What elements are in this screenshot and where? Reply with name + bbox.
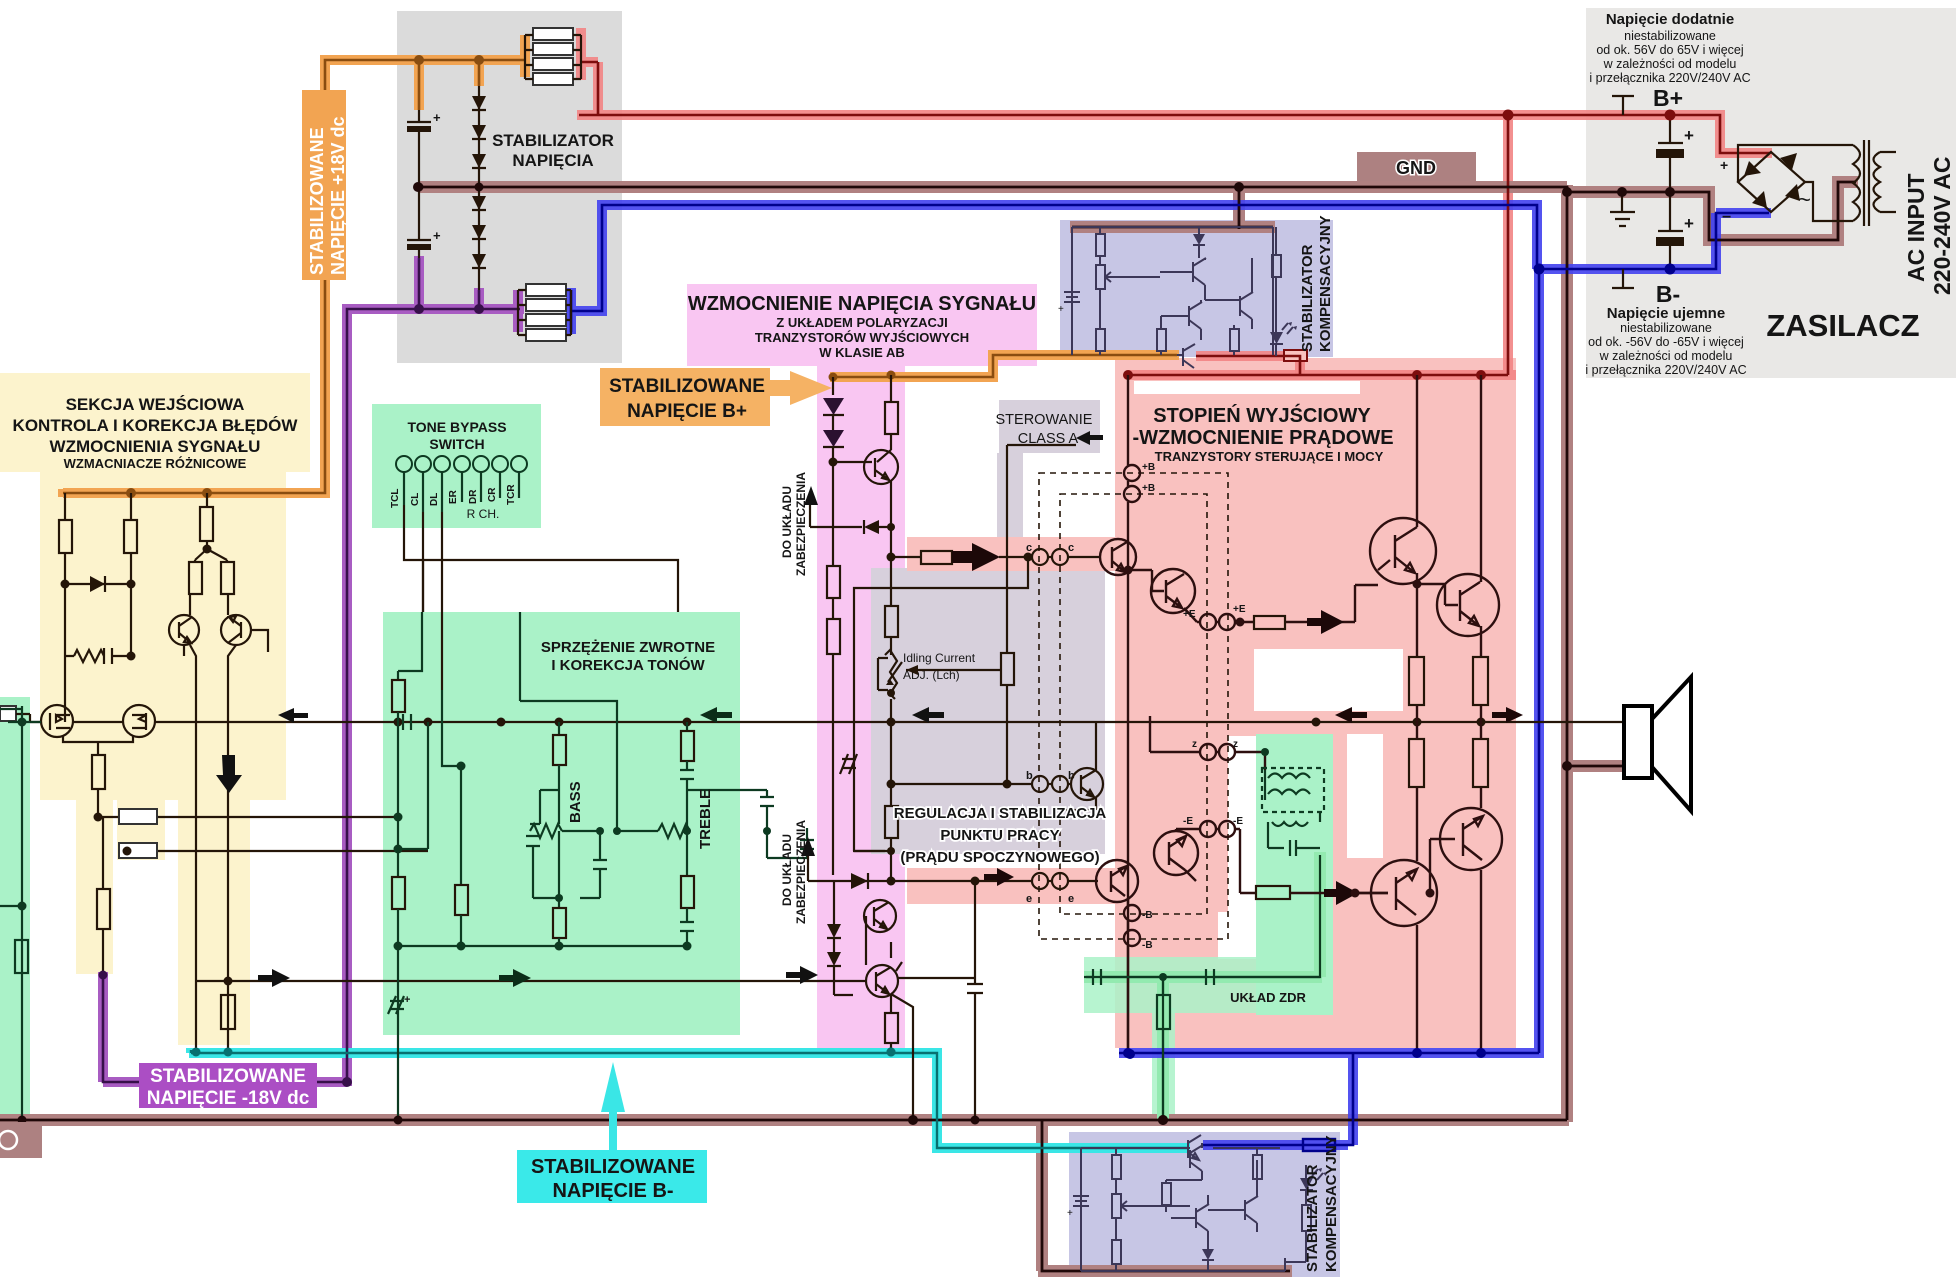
LED D51: [1270, 332, 1283, 344]
resistor R31: [827, 566, 840, 598]
region: regulacja lavender box: [871, 568, 1105, 854]
svg-text:AC INPUT: AC INPUT: [1903, 173, 1929, 282]
resistor R45: [1256, 886, 1290, 899]
svg-text:REGULACJA I STABILIZACJA: REGULACJA I STABILIZACJA: [894, 805, 1107, 822]
Z row: [1150, 716, 1265, 770]
protection tap lower: [801, 837, 868, 889]
transistor Q51: [1161, 300, 1202, 340]
+E connector circles: [1200, 614, 1235, 630]
region: red strip e-row: [907, 868, 1115, 904]
wire Q22 collector to cap: [866, 916, 902, 971]
label cyan B-: [517, 1150, 707, 1203]
diode D10: [61, 553, 136, 592]
label stabilizator kompensacyjny bottom: [1304, 1135, 1340, 1272]
resistor R23 bass top: [558, 722, 560, 735]
treble resistor R25: [686, 722, 688, 731]
svg-text:+E: +E: [1233, 604, 1246, 615]
trimmer line 2: [119, 843, 428, 858]
region: yellow input section schematic: [40, 470, 286, 800]
svg-text:NAPIĘCIE B-: NAPIĘCIE B-: [552, 1180, 673, 1202]
svg-text:-B: -B: [1142, 910, 1153, 921]
svg-text:UKŁAD ZDR: UKŁAD ZDR: [1230, 990, 1306, 1005]
svg-text:+: +: [433, 110, 441, 125]
resistor R14: [92, 755, 105, 789]
junction dot purple: [342, 1077, 352, 1087]
wire core cyan: [191, 1050, 1188, 1148]
chassis symbol top: [1612, 96, 1634, 115]
labels zasilacz bottom block: [1585, 305, 1746, 377]
resistor R56 on red link: [1284, 350, 1307, 361]
junction dots stabilizer: [414, 55, 484, 65]
zdr cap left bottom band: [1086, 969, 1110, 985]
resistor R30: [890, 375, 892, 402]
resistor R65: [1302, 1205, 1311, 1231]
transistor Q10: [169, 594, 199, 645]
zdr transformer: [1262, 768, 1324, 826]
emitter resistor R43: [1409, 739, 1424, 787]
svg-text:ER: ER: [448, 489, 459, 504]
arrow left at 1335: [1335, 707, 1367, 723]
wire core red: [579, 62, 1770, 375]
capacitor C2 bottom: [407, 184, 441, 258]
resistor R60: [1112, 1155, 1121, 1179]
junction dot cyan end: [887, 1048, 896, 1057]
cyan arrow label pointer: [601, 1062, 625, 1150]
svg-text:NAPIĘCIE -18V dc: NAPIĘCIE -18V dc: [147, 1088, 310, 1109]
protection tap upper: arrow up: [804, 486, 895, 534]
arrow right +E row: [1307, 610, 1344, 634]
+B connector circles: [1124, 465, 1140, 502]
connector circles e row: [1032, 873, 1068, 889]
svg-text:STABILIZOWANE: STABILIZOWANE: [307, 127, 327, 275]
region: uklad zdr green column: [1256, 734, 1333, 1015]
Z connector circles: [1200, 744, 1235, 760]
arrow right at 215: [258, 969, 290, 987]
FET T2: [123, 705, 155, 737]
diode D23: [851, 873, 868, 889]
transistor Q37 lower left: [1096, 860, 1138, 905]
diode D21: [823, 430, 844, 447]
transistor Q11: [221, 594, 251, 645]
label sprzezenie: [541, 639, 715, 674]
wire cyan band B- stabilized: [189, 1048, 1190, 1148]
svg-text:-B: -B: [1142, 940, 1153, 951]
switch wires down: [404, 505, 678, 690]
wire core green zdr: [1084, 855, 1320, 1120]
svg-text:KOMPENSACYJNY: KOMPENSACYJNY: [1317, 215, 1334, 352]
zener symbol bottom left: [388, 996, 404, 1014]
arrow right to speaker: [1492, 707, 1523, 723]
junction dots red bus: [1123, 370, 1486, 380]
wire red band B+: [577, 28, 1772, 375]
svg-text:i przełącznika 220V/240V AC: i przełącznika 220V/240V AC: [1585, 363, 1746, 377]
resistor R55: [1230, 329, 1239, 351]
rc feedback network: [65, 584, 136, 664]
svg-text:+B: +B: [1142, 483, 1155, 494]
label do ukladu 2: [780, 820, 808, 924]
svg-text:-WZMOCNIENIE PRĄDOWE: -WZMOCNIENIE PRĄDOWE: [1132, 427, 1393, 449]
capacitor C1 top: [407, 110, 441, 184]
svg-text:SWITCH: SWITCH: [429, 436, 484, 452]
region: pink column: [817, 366, 905, 1052]
top jog to pot column: [520, 612, 617, 831]
transistor Q31 driver: [1124, 566, 1196, 614]
resistor R24 bass bottom: [558, 831, 560, 908]
-E connector circles: [1200, 821, 1235, 837]
wire Q11 collector loop: [65, 630, 268, 722]
green strip rail: [0, 706, 41, 1120]
svg-text:STABILIZOWANE: STABILIZOWANE: [150, 1066, 306, 1087]
wire main signal path: [73, 721, 1624, 723]
transistor Q23 bias: [1060, 722, 1103, 810]
svg-text:+: +: [1684, 126, 1694, 145]
label yellow title: [13, 395, 299, 471]
long rail A: [190, 645, 196, 1052]
arrow left at 283: [278, 708, 308, 723]
transistor Q63 at cyan end: [1188, 1135, 1201, 1160]
svg-text:ZABEZPIECZENIA: ZABEZPIECZENIA: [794, 472, 808, 576]
svg-text:e: e: [1026, 893, 1032, 905]
treble cap C24: [767, 828, 814, 858]
svg-text:TRANZYSTORY STERUJĄCE I MOCY: TRANZYSTORY STERUJĄCE I MOCY: [1155, 449, 1384, 464]
svg-text:od ok. -56V do -65V i więcej: od ok. -56V do -65V i więcej: [1588, 335, 1744, 349]
pot R51: [1096, 265, 1105, 289]
region: white cutout bottom: [1218, 912, 1256, 959]
region: sterowanie class a lavender box: [999, 400, 1100, 453]
region: feedback tone green box: [383, 612, 740, 1035]
resistor R36: [1001, 653, 1014, 685]
arrow left at 700: [700, 707, 732, 723]
dashed interconnect box outer: [1039, 473, 1228, 939]
transistor Q20: [833, 450, 898, 606]
emitter resistor R42: [1473, 657, 1488, 705]
svg-text:c: c: [1068, 542, 1074, 554]
arrow right at 500: [499, 969, 531, 987]
resistor R26 treble bottom: [686, 814, 688, 876]
diode D24: [827, 924, 841, 938]
svg-text:CLASS A: CLASS A: [1018, 431, 1079, 447]
-B connector circles: [1124, 905, 1140, 946]
label AC INPUT: [1903, 156, 1955, 295]
svg-text:SEKCJA WEJŚCIOWA: SEKCJA WEJŚCIOWA: [66, 395, 245, 414]
branch rail left: [398, 722, 428, 877]
resistor R52: [1096, 329, 1105, 351]
resistor R53: [1272, 255, 1281, 277]
svg-text:STABILIZATOR: STABILIZATOR: [492, 131, 614, 150]
label orange B+: [600, 368, 770, 426]
transistor Q61: [1171, 1195, 1209, 1245]
region: yellow small tab: [117, 796, 165, 860]
svg-text:WZMACNIACZE RÓŻNICOWE: WZMACNIACZE RÓŻNICOWE: [64, 456, 247, 471]
resistor R33: [885, 606, 898, 637]
svg-text:Z UKŁADEM POLARYZACJI: Z UKŁADEM POLARYZACJI: [776, 315, 947, 330]
pot R61: [1112, 1194, 1121, 1218]
rails to signal: [1417, 705, 1481, 861]
resistor bank top R1-R4: [525, 28, 581, 85]
resistor R40: [1254, 616, 1285, 629]
region: red output stage main: [1115, 358, 1516, 1048]
svg-text:GND: GND: [1396, 158, 1436, 178]
treble cap C22: [680, 761, 694, 814]
input connector box: [0, 706, 16, 721]
svg-text:DO UKŁADU: DO UKŁADU: [780, 834, 794, 906]
label GND: [1357, 152, 1476, 181]
wire +18V orange band top-left: [63, 35, 530, 497]
svg-text:STOPIEŃ WYJŚCIOWY: STOPIEŃ WYJŚCIOWY: [1153, 403, 1371, 427]
wire red band compensator link: [1196, 356, 1300, 375]
svg-text:BASS: BASS: [567, 781, 584, 823]
svg-text:KONTROLA I KOREKCJA BŁĘDÓW: KONTROLA I KOREKCJA BŁĘDÓW: [13, 416, 299, 435]
resistor R34: [890, 722, 892, 806]
zener pair symbol: [840, 754, 857, 774]
arrow left at 912: [912, 707, 944, 723]
emitter resistor R41: [1409, 657, 1424, 705]
pass transistor Q53: [1177, 344, 1195, 368]
wire orange B+ band center: [830, 355, 1179, 377]
svg-text:niestabilizowane: niestabilizowane: [1620, 321, 1712, 335]
junction dots orange bus: [126, 488, 212, 498]
left rail pink column: [832, 377, 834, 395]
branch rail two: [428, 690, 461, 885]
resistor R63: [1162, 1183, 1171, 1205]
long rail B: [228, 645, 236, 1052]
resistor R54: [1157, 329, 1166, 351]
svg-text:R CH.: R CH.: [467, 507, 500, 521]
svg-text:−: −: [1722, 209, 1731, 226]
resistor R35: [885, 1013, 898, 1043]
label tone bypass: [407, 419, 506, 521]
wire core red compensator link: [1196, 356, 1300, 374]
resistor R66 blue link: [1303, 1139, 1335, 1151]
svg-text:TRANZYSTORÓW WYJŚCIOWYCH: TRANZYSTORÓW WYJŚCIOWYCH: [755, 330, 969, 345]
treble potentiometer: [617, 824, 771, 838]
wire input to T1: [16, 714, 41, 722]
arrow down feedback: [216, 755, 242, 793]
transformer with core: [1738, 140, 1896, 226]
svg-text:NAPIĘCIE B+: NAPIĘCIE B+: [627, 401, 747, 422]
resistor R10: [64, 493, 66, 520]
wire blue band B-: [571, 205, 1771, 1145]
region: tone bypass switch green box: [372, 404, 541, 528]
connector circles c row: [1032, 549, 1068, 565]
svg-text:b: b: [1026, 770, 1033, 782]
arrow right -E row: [1324, 881, 1358, 905]
capacitor C20: [526, 836, 559, 898]
svg-text:WZMOCNIENIA SYGNAŁU: WZMOCNIENIA SYGNAŁU: [50, 437, 261, 456]
output transistor Q33: [1413, 375, 1500, 657]
left branch resistor R20: [398, 612, 422, 680]
bridge rectifier: [1720, 152, 1811, 226]
region: white cutout top strip: [1134, 381, 1360, 394]
internal rails bottom box: [1081, 1148, 1285, 1271]
trimmer line 1: [98, 809, 398, 824]
label orange +18V: [302, 90, 348, 280]
transistor Q36 lower driver: [1154, 829, 1198, 881]
diode D50: [1193, 234, 1205, 245]
svg-text:STABILIZOWANE: STABILIZOWANE: [531, 1156, 695, 1178]
label pink title: [688, 293, 1036, 360]
transistor Q60 top: [1166, 1143, 1203, 1180]
-E row: [1176, 829, 1388, 893]
diode string lower D5-D7: [472, 184, 486, 290]
transistor Q62: [1208, 1160, 1258, 1232]
svg-text:-E: -E: [1233, 816, 1243, 827]
labels tone switch pins: [390, 484, 517, 508]
junction dots blue bus: [1123, 1048, 1486, 1059]
resistor R62: [1112, 1240, 1121, 1264]
lower output transistor Q35: [1426, 808, 1503, 1053]
zdr cap right bottom band: [1199, 969, 1256, 985]
region: yellow right column: [178, 796, 250, 1045]
wire green band zdr: [1084, 852, 1322, 1120]
resistor R32: [827, 619, 840, 654]
region: sterowanie gray column: [997, 453, 1023, 569]
label stopien wyjsciowy: [1132, 403, 1393, 464]
svg-text:CR: CR: [487, 487, 498, 502]
svg-text:SPRZĘŻENIE ZWROTNE: SPRZĘŻENIE ZWROTNE: [541, 639, 715, 656]
bottom feedback arrow right line start: [196, 980, 866, 982]
speaker: [1624, 706, 1652, 778]
battery cap symbol: [1064, 282, 1080, 312]
treble cap C23: [687, 790, 774, 831]
resistor R21: [392, 877, 405, 909]
svg-text:STABILIZATOR: STABILIZATOR: [1299, 244, 1316, 352]
orange B+ arrow head: [768, 371, 832, 405]
svg-text:e: e: [1068, 893, 1074, 905]
emitter resistor R44: [1473, 739, 1488, 787]
wire purple band -18V: [103, 256, 524, 1086]
FET T1: [41, 705, 73, 737]
resistor R50: [1096, 234, 1105, 256]
junction dots rails cyan: [192, 1048, 233, 1057]
region: left green strip: [0, 697, 30, 1118]
left rail red: [1127, 375, 1129, 1053]
diode D60: [1202, 1249, 1214, 1260]
svg-text:w zależności od modelu: w zależności od modelu: [1599, 349, 1733, 363]
labels zasilacz top block: [1589, 11, 1750, 85]
transistor Q21: [864, 900, 896, 932]
label regulacja: [894, 805, 1107, 866]
wire core purple: [103, 258, 520, 1082]
region: yellow left column: [76, 796, 113, 974]
e row line: [808, 880, 1098, 882]
region: stabilizator kompensacyjny top purple box: [1060, 220, 1333, 357]
svg-text:STABILIZATOR: STABILIZATOR: [1304, 1164, 1321, 1272]
diode D20: [823, 398, 844, 415]
svg-text:i przełącznika 220V/240V AC: i przełącznika 220V/240V AC: [1589, 71, 1750, 85]
svg-text:CL: CL: [410, 493, 421, 506]
svg-text:WZMOCNIENIE NAPIĘCIA SYGNAŁU: WZMOCNIENIE NAPIĘCIA SYGNAŁU: [688, 293, 1036, 315]
svg-text:+: +: [404, 994, 410, 1006]
svg-text:NAPIĘCIE +18V dc: NAPIĘCIE +18V dc: [328, 116, 348, 275]
idling current potentiometer: [878, 650, 902, 722]
capacitor C30: [909, 881, 984, 1125]
transistor Q22: [866, 965, 898, 997]
resistor R12: [206, 493, 208, 507]
region: stabilizator kompensacyjny bottom purple box: [1069, 1132, 1340, 1277]
lower output transistor Q34: [1355, 860, 1437, 1053]
svg-text:~: ~: [1798, 187, 1811, 212]
label stabilizator kompensacyjny top: [1299, 215, 1334, 352]
resistor R17 green strip: [15, 940, 28, 973]
svg-text:+: +: [1720, 157, 1728, 173]
region: white cutout between zdr: [1347, 734, 1383, 858]
junction dots zasilacz: [1503, 110, 1676, 121]
resistor R13 splitter: [189, 541, 234, 594]
wire core orange B+: [830, 355, 1177, 377]
svg-text:z: z: [1233, 739, 1238, 750]
svg-text:niestabilizowane: niestabilizowane: [1624, 29, 1716, 43]
svg-text:c: c: [1026, 542, 1032, 554]
diode D25: [827, 952, 841, 966]
region: red strip c-row: [907, 537, 1115, 571]
svg-text:w zależności od modelu: w zależności od modelu: [1603, 57, 1737, 71]
diode D22 left-point: [864, 520, 879, 534]
capacitor C101 negative rail: [1656, 192, 1694, 269]
capacitor C100 positive rail: [1656, 115, 1694, 192]
cap C25 bottom: [680, 908, 694, 946]
transistor Q50: [1160, 258, 1240, 300]
connector stubs: [404, 472, 519, 512]
series capacitor on signal line: [403, 714, 411, 730]
rail to gnd: [397, 946, 399, 1120]
svg-text:TREBLE: TREBLE: [697, 789, 714, 849]
svg-text:+: +: [433, 228, 441, 243]
svg-text:W KLASIE AB: W KLASIE AB: [819, 345, 904, 360]
svg-text:+: +: [1684, 214, 1694, 233]
svg-text:KOMPENSACYJNY: KOMPENSACYJNY: [1323, 1135, 1340, 1272]
battery cap symbol bottom: [1073, 1186, 1089, 1216]
svg-text:PUNKTU PRACY: PUNKTU PRACY: [940, 827, 1059, 844]
svg-text:STEROWANIE: STEROWANIE: [996, 412, 1093, 428]
region: white cutout center: [1254, 649, 1403, 711]
resistor bank bottom R5-R8: [518, 284, 571, 341]
svg-text:STABILIZOWANE: STABILIZOWANE: [609, 376, 765, 397]
transistor Q30 driver top: [1100, 539, 1136, 575]
svg-text:+: +: [1058, 304, 1064, 315]
svg-text:od ok. 56V do 65V i więcej: od ok. 56V do 65V i więcej: [1596, 43, 1743, 57]
dashed interconnect box inner: [1060, 494, 1207, 914]
purple terminal dot: [99, 971, 108, 980]
svg-text:TCL: TCL: [390, 489, 401, 508]
wire T1 T2 source join: [63, 735, 133, 755]
region: zasilacz gray box: [1586, 8, 1956, 378]
svg-text:+: +: [1067, 1208, 1073, 1219]
wire core +18V orange: [63, 60, 525, 493]
svg-text:-E: -E: [1183, 816, 1193, 827]
bottom bus green box: [398, 945, 687, 947]
svg-text:z: z: [1192, 739, 1197, 750]
wire to R15: [98, 789, 103, 889]
svg-text:TONE BYPASS: TONE BYPASS: [407, 419, 506, 435]
zdr capacitor: [1268, 822, 1320, 856]
ground symbol: [1610, 192, 1635, 226]
svg-text:DR: DR: [468, 489, 479, 504]
svg-text:+E: +E: [1183, 609, 1196, 620]
svg-text:DL: DL: [429, 493, 440, 506]
region: yellow input section title block: [0, 373, 310, 472]
resistor R22: [455, 885, 468, 915]
svg-text:TCR: TCR: [506, 484, 517, 505]
resistor R37 c row: [921, 551, 952, 564]
resistor R11: [130, 493, 132, 520]
bass potentiometer: [530, 785, 621, 860]
output transistor Q32: [1370, 375, 1436, 657]
svg-text:ZASILACZ: ZASILACZ: [1766, 308, 1919, 343]
region: stabilizator napiecia gray box: [397, 11, 622, 363]
class a feed line: [1007, 445, 1076, 653]
resistor R15: [97, 889, 110, 929]
